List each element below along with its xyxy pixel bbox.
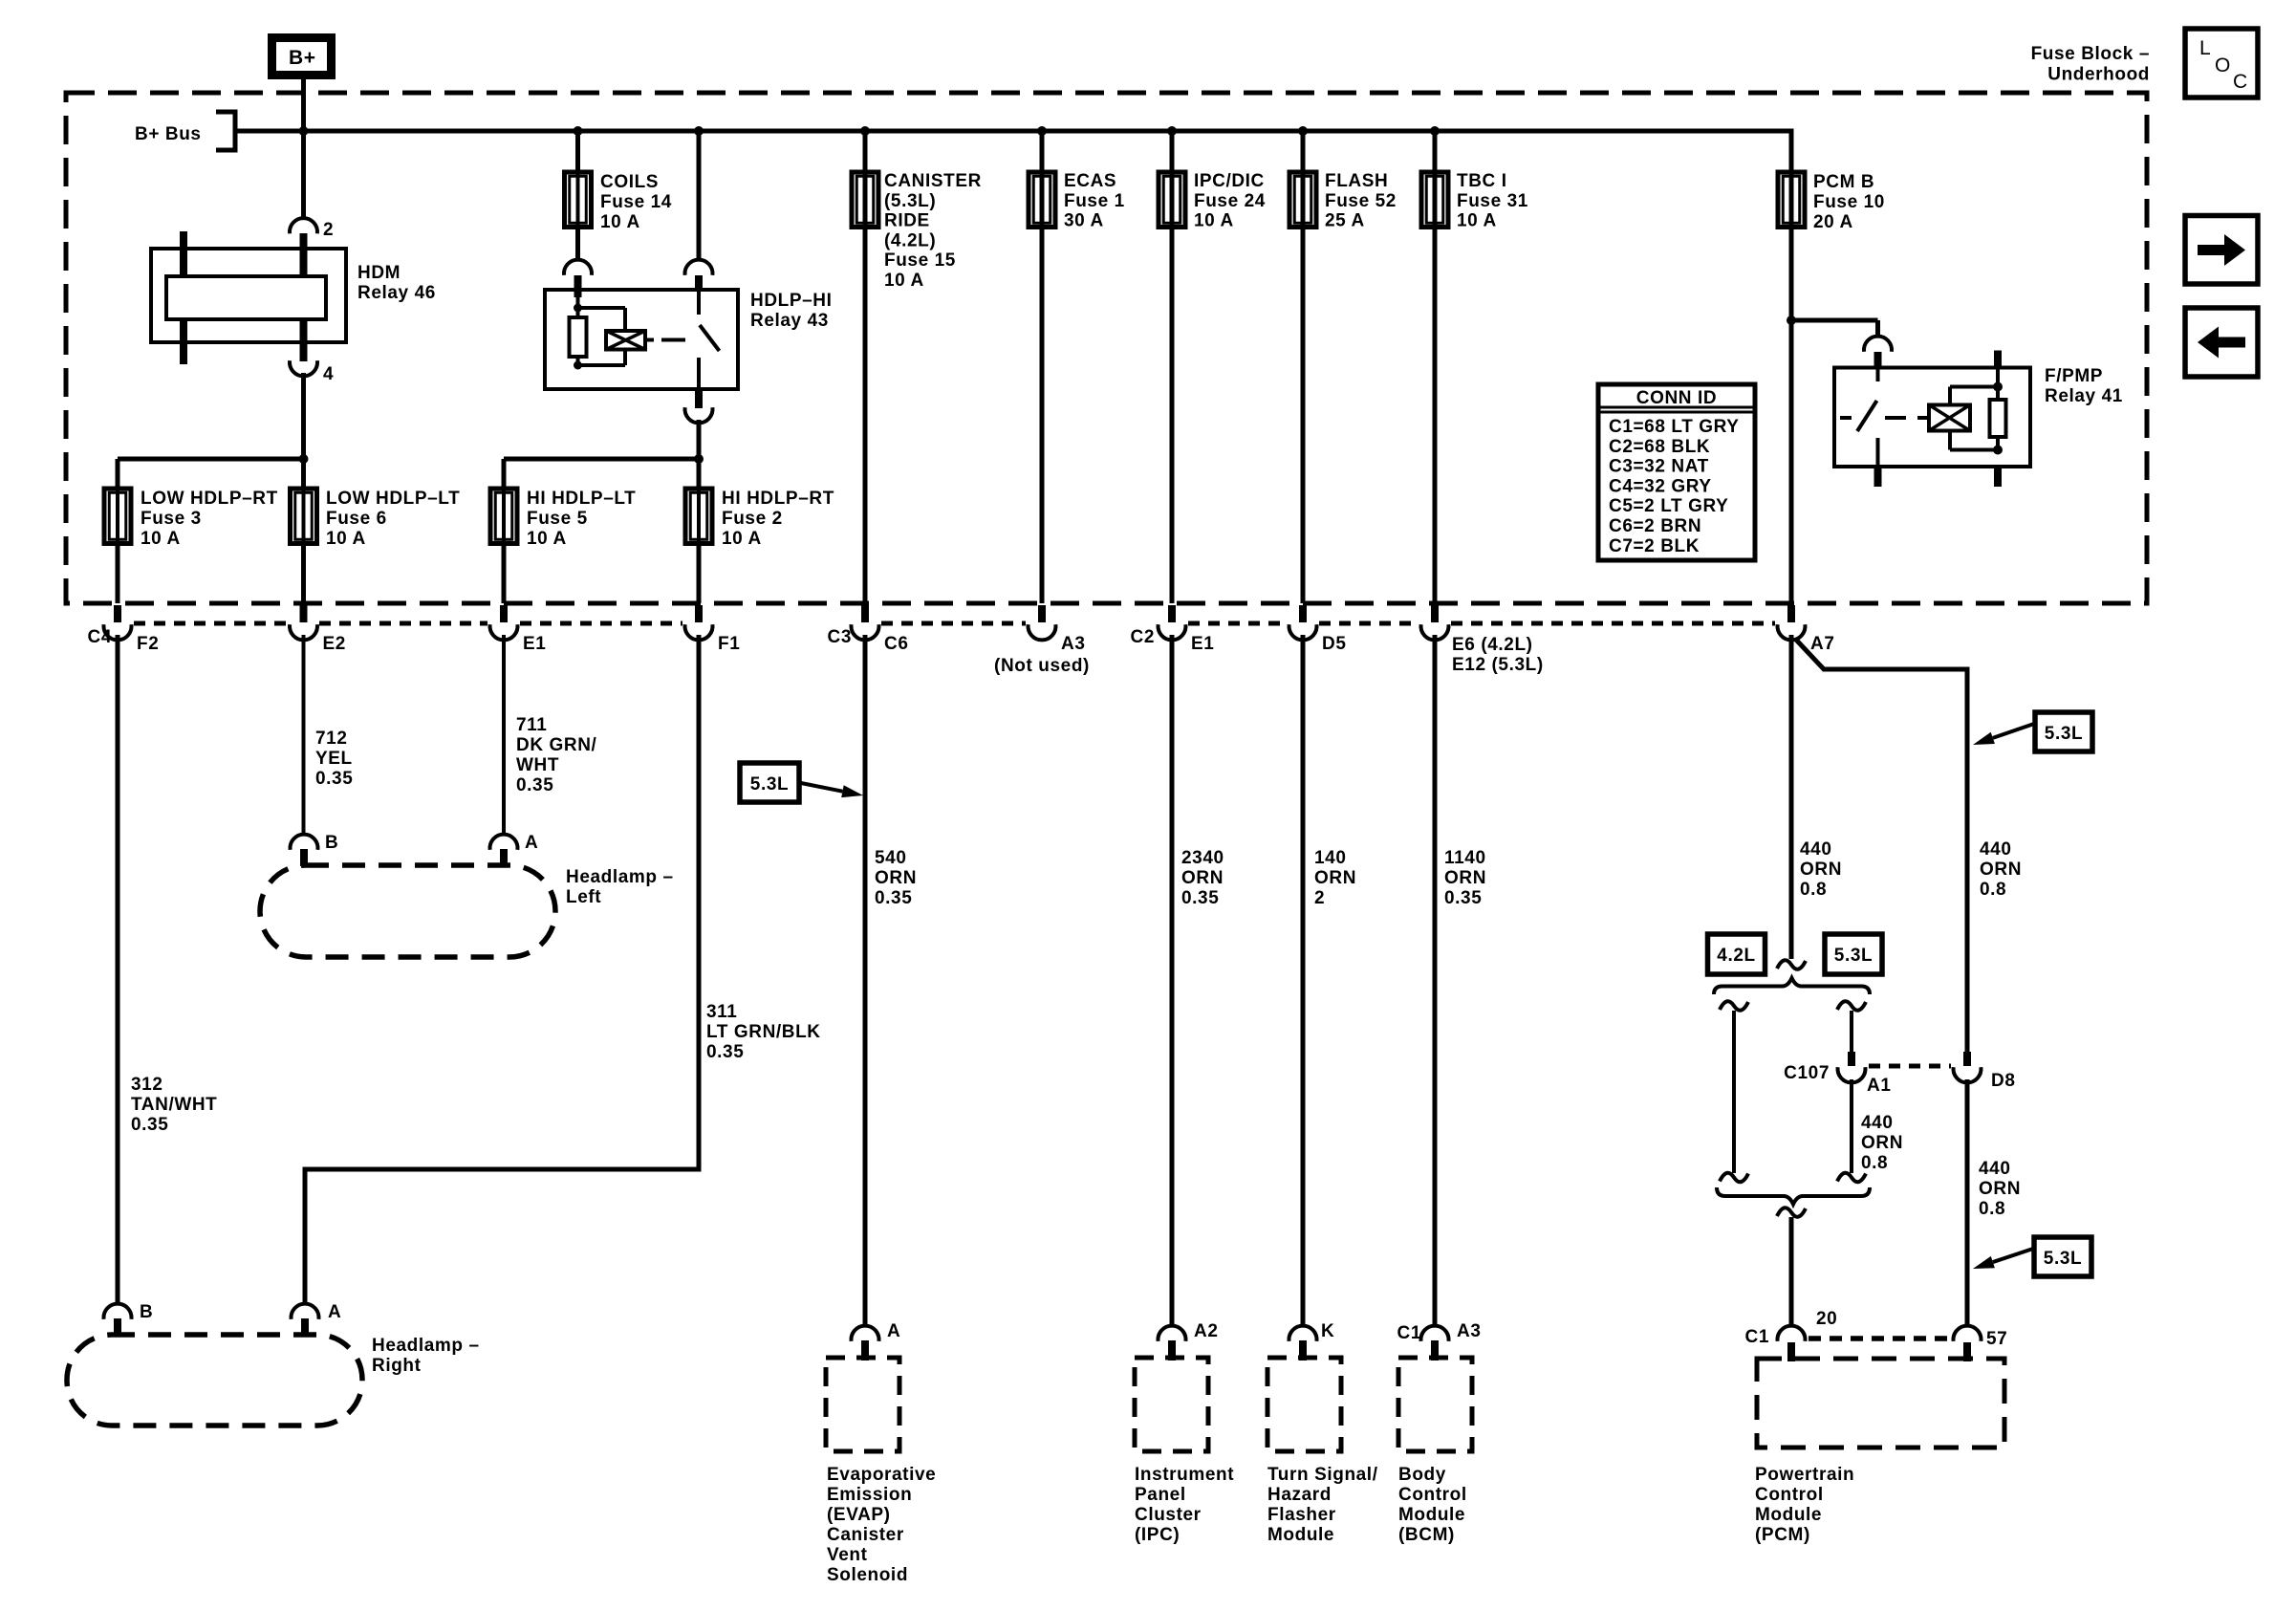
svg-text:HDM: HDM — [357, 263, 401, 283]
battery terminal B+ — [272, 38, 332, 76]
wire D8 to PCM pin 57 — [1965, 1079, 1970, 1326]
svg-text:C: C — [2233, 71, 2248, 93]
svg-text:B+ Bus: B+ Bus — [135, 124, 202, 144]
engine option box 5.3L split — [1825, 934, 1882, 974]
svg-text:Control: Control — [1755, 1485, 1824, 1505]
svg-text:C4: C4 — [88, 627, 113, 647]
wire bus to relay 43 switch pin — [697, 131, 702, 261]
dotted connector line F2-F1 — [134, 621, 288, 626]
svg-text:D8: D8 — [1991, 1071, 2016, 1091]
relay 43 actuator link — [645, 338, 654, 342]
wire F24 to connector row — [1170, 228, 1175, 604]
connector C3/C6 at fuse block — [861, 605, 869, 622]
node bus tap ipc — [1167, 126, 1177, 136]
svg-text:10 A: 10 A — [141, 529, 181, 549]
svg-text:440: 440 — [1979, 1159, 2011, 1179]
node low-hdlp feed junction — [299, 454, 309, 464]
svg-text:(4.2L): (4.2L) — [884, 230, 936, 250]
svg-text:A3: A3 — [1457, 1321, 1482, 1341]
svg-text:0.8: 0.8 — [1800, 880, 1827, 900]
svg-text:ECAS: ECAS — [1064, 171, 1116, 191]
fuse F14 COILS — [576, 172, 580, 228]
wire junction to relay 41 — [1791, 318, 1878, 323]
component Headlamp - Right — [67, 1335, 362, 1426]
connector E2 at fuse block — [300, 605, 308, 622]
svg-text:2: 2 — [323, 220, 334, 240]
svg-text:Right: Right — [372, 1356, 422, 1376]
wire 311 LT GRN/BLK circuit F1 to headlamp right A — [305, 635, 699, 1305]
connector C4/F2 at fuse block — [114, 605, 121, 622]
relay 41 lower pin stub — [1994, 467, 2002, 487]
node bus tap canister — [860, 126, 870, 136]
svg-text:Evaporative: Evaporative — [827, 1465, 936, 1485]
relay 43 coil circuit — [576, 297, 580, 317]
LOC legend box — [2185, 29, 2258, 98]
connector D5 at fuse block — [1299, 605, 1307, 622]
engine option box 4.2L — [1708, 934, 1765, 974]
svg-text:C7=2 BLK: C7=2 BLK — [1609, 536, 1700, 556]
component Instrument Panel Cluster box — [1135, 1358, 1208, 1451]
svg-text:IPC/DIC: IPC/DIC — [1194, 171, 1265, 191]
wire A7 branch to 5.3L pcm feed — [1795, 639, 1967, 1052]
svg-text:712: 712 — [315, 729, 348, 749]
svg-text:440: 440 — [1980, 839, 2012, 860]
svg-text:Module: Module — [1398, 1505, 1465, 1525]
connector flasher module pin K — [1289, 1326, 1317, 1341]
svg-text:C107: C107 — [1784, 1063, 1830, 1083]
node bus tap ecas — [1037, 126, 1047, 136]
svg-text:Body: Body — [1398, 1465, 1446, 1485]
svg-text:30 A: 30 A — [1064, 211, 1104, 231]
wire B+ to bus — [301, 79, 306, 131]
wire 140 ORN circuit D5 to flasher module — [1301, 635, 1306, 1326]
brace engine option split bottom — [1717, 1187, 1870, 1205]
svg-text:A1: A1 — [1867, 1076, 1892, 1096]
fuse F31 TBC I — [1433, 131, 1438, 228]
wire 711 DK GRN/WHT circuit E1 to headlamp left A — [502, 635, 506, 836]
connector F1 at fuse block — [695, 605, 703, 622]
wire 712 YEL circuit E2 to headlamp left B — [302, 635, 306, 836]
svg-text:F1: F1 — [718, 634, 740, 654]
dotted connector line pin20-pin57 — [1809, 1336, 1951, 1341]
svg-text:25 A: 25 A — [1325, 211, 1365, 231]
svg-text:Fuse 6: Fuse 6 — [326, 509, 387, 529]
svg-text:Fuse 5: Fuse 5 — [527, 509, 588, 529]
svg-text:LOW HDLP–LT: LOW HDLP–LT — [326, 489, 460, 509]
svg-text:C6=2 BRN: C6=2 BRN — [1609, 516, 1701, 536]
connector A7 wire to engine split — [1789, 635, 1794, 959]
connector IPC pin A2 — [1159, 1326, 1186, 1341]
dotted connector line E1-A7 — [1188, 621, 1287, 626]
connector relay 43 coil pin — [564, 260, 592, 275]
wire relay46 pin4 down — [301, 373, 306, 489]
wire 5.3L branch lower — [1850, 1079, 1853, 1173]
wire junction to fuse 5 column — [504, 457, 699, 462]
svg-text:LOW HDLP–RT: LOW HDLP–RT — [141, 489, 278, 509]
svg-text:1140: 1140 — [1444, 848, 1486, 868]
connector E6/E12 at fuse block — [1431, 605, 1439, 622]
svg-text:HDLP–HI: HDLP–HI — [750, 291, 833, 311]
svg-text:Fuse 14: Fuse 14 — [600, 192, 672, 212]
fuse Fuse6 LOW HDLP–LT — [302, 489, 306, 544]
node hi-hdlp feed junction — [694, 454, 704, 464]
svg-text:Left: Left — [566, 887, 601, 907]
svg-text:10 A: 10 A — [1457, 211, 1497, 231]
svg-text:Hazard: Hazard — [1267, 1485, 1332, 1505]
component Turn Signal Hazard Flasher Module box — [1267, 1358, 1341, 1451]
svg-text:Flasher: Flasher — [1267, 1505, 1336, 1525]
svg-text:Cluster: Cluster — [1135, 1505, 1202, 1525]
relay 41 output pin stub — [1874, 467, 1882, 487]
fuse block - underhood dashed border — [66, 93, 2147, 603]
svg-text:540: 540 — [875, 848, 907, 868]
svg-text:10 A: 10 A — [527, 529, 567, 549]
svg-text:4: 4 — [323, 364, 334, 384]
wire 2340 ORN circuit E1 to IPC — [1170, 635, 1175, 1326]
fuse F52 FLASH — [1301, 131, 1306, 228]
wire Fuse6 to connector row — [301, 544, 306, 604]
svg-text:5.3L: 5.3L — [1834, 946, 1873, 966]
node B+ bus junction — [299, 126, 309, 136]
svg-text:440: 440 — [1861, 1113, 1894, 1133]
connector relay 41 switch pin — [1864, 337, 1892, 352]
svg-text:2: 2 — [1314, 888, 1325, 908]
brace engine option split top — [1714, 978, 1870, 994]
svg-text:ORN: ORN — [1861, 1133, 1903, 1153]
svg-text:ORN: ORN — [1800, 860, 1842, 880]
relay 41 coil symbol — [1929, 405, 1970, 431]
svg-text:5.3L: 5.3L — [2044, 1249, 2082, 1269]
svg-text:Fuse 2: Fuse 2 — [722, 509, 783, 529]
connector pin 4 of relay 46 — [300, 319, 308, 361]
svg-text:D5: D5 — [1322, 634, 1347, 654]
svg-text:C1=68 LT GRY: C1=68 LT GRY — [1609, 417, 1740, 437]
svg-text:A7: A7 — [1810, 634, 1835, 654]
wire bus corner to fuse 10 — [1789, 129, 1794, 228]
node bus tap tbc — [1430, 126, 1440, 136]
wire Fuse5 to connector row — [502, 544, 507, 604]
fuse F24 IPC/DIC — [1170, 131, 1175, 228]
svg-text:(5.3L): (5.3L) — [884, 191, 936, 211]
relay 43 coil symbol — [606, 331, 645, 350]
svg-text:0.35: 0.35 — [131, 1115, 168, 1135]
svg-text:Instrument: Instrument — [1135, 1465, 1234, 1485]
svg-text:TAN/WHT: TAN/WHT — [131, 1095, 217, 1115]
svg-text:Canister: Canister — [827, 1525, 904, 1545]
svg-text:10 A: 10 A — [326, 529, 366, 549]
svg-text:(BCM): (BCM) — [1398, 1525, 1455, 1545]
svg-text:Headlamp –: Headlamp – — [566, 867, 674, 887]
svg-text:0.8: 0.8 — [1980, 880, 2006, 900]
connector PCM pin 57 — [1953, 1326, 1981, 1341]
connector relay 43 output pin — [695, 389, 703, 408]
fuse Fuse5 HI HDLP–LT — [502, 489, 506, 544]
wire bus to relay46 pin 2 — [301, 131, 306, 219]
svg-text:A2: A2 — [1194, 1321, 1219, 1341]
svg-text:ORN: ORN — [875, 868, 917, 888]
engine option box 5.3L right lower — [2034, 1237, 2091, 1276]
fuse F10 PCM B — [1778, 172, 1805, 228]
svg-text:FLASH: FLASH — [1325, 171, 1388, 191]
relay 41 coil circuit — [1948, 387, 1952, 405]
wire 1140 ORN circuit E6/E12 to BCM — [1433, 635, 1438, 1326]
svg-text:C1: C1 — [1745, 1327, 1770, 1347]
svg-text:C2: C2 — [1131, 627, 1156, 647]
svg-text:5.3L: 5.3L — [2045, 724, 2083, 744]
svg-text:0.8: 0.8 — [1861, 1153, 1888, 1173]
fuse Fuse2 HI HDLP–RT — [697, 489, 701, 544]
svg-text:O: O — [2215, 54, 2231, 76]
connector D8 — [1963, 1052, 1971, 1066]
svg-text:WHT: WHT — [516, 755, 559, 775]
wire F15 to connector row — [863, 228, 868, 604]
relay U46 HDM box — [151, 249, 346, 342]
wire Fuse3 to connector row — [116, 544, 120, 604]
svg-text:0.35: 0.35 — [875, 888, 912, 908]
svg-text:Underhood: Underhood — [2047, 65, 2150, 85]
svg-text:Powertrain: Powertrain — [1755, 1465, 1854, 1485]
wire break below split — [1777, 1208, 1806, 1217]
svg-text:A3: A3 — [1061, 634, 1086, 654]
connector headlamp right pin B — [103, 1304, 131, 1319]
wire split to PCM C1 pin 20 — [1789, 1217, 1794, 1326]
svg-text:ORN: ORN — [1314, 868, 1356, 888]
wire F52 to connector row — [1301, 228, 1306, 604]
svg-text:C1: C1 — [1397, 1323, 1422, 1343]
component Headlamp - Left — [260, 865, 555, 957]
engine option arrow to wire 440 — [1993, 724, 2034, 738]
svg-text:5.3L: 5.3L — [750, 774, 789, 795]
engine option arrow 5.3L to wire 540 — [801, 783, 842, 792]
svg-text:10 A: 10 A — [1194, 211, 1234, 231]
svg-text:HI HDLP–LT: HI HDLP–LT — [527, 489, 636, 509]
svg-text:Relay 41: Relay 41 — [2045, 386, 2123, 406]
svg-text:10 A: 10 A — [722, 529, 762, 549]
wire 540 ORN circuit C6 to EVAP solenoid — [863, 635, 868, 1326]
svg-text:(PCM): (PCM) — [1755, 1525, 1810, 1545]
svg-text:Solenoid: Solenoid — [827, 1565, 908, 1585]
svg-text:711: 711 — [516, 715, 547, 735]
svg-text:C2=68 BLK: C2=68 BLK — [1609, 437, 1710, 457]
svg-text:ORN: ORN — [1444, 868, 1486, 888]
svg-text:E1: E1 — [1191, 634, 1214, 654]
svg-text:Fuse 10: Fuse 10 — [1813, 192, 1885, 212]
node bus tap coils — [574, 126, 583, 136]
wire F31 to connector row — [1433, 228, 1438, 604]
dotted connector line C6-A3 — [881, 621, 1026, 626]
svg-text:L: L — [2199, 37, 2211, 59]
relay U43 HDLP-HI box — [545, 290, 738, 389]
svg-text:(Not used): (Not used) — [994, 656, 1090, 676]
connector BCM pin A3 connector C1 — [1421, 1326, 1449, 1341]
svg-text:57: 57 — [1986, 1329, 2007, 1349]
svg-text:0.35: 0.35 — [1444, 888, 1482, 908]
svg-text:Fuse 24: Fuse 24 — [1194, 191, 1266, 211]
engine option box 5.3L left — [740, 763, 799, 802]
svg-text:K: K — [1321, 1321, 1334, 1341]
svg-text:Fuse 31: Fuse 31 — [1457, 191, 1528, 211]
wire B+ bus bar — [235, 129, 1794, 134]
svg-text:A: A — [525, 833, 538, 853]
svg-text:10 A: 10 A — [884, 271, 924, 291]
svg-text:(EVAP): (EVAP) — [827, 1505, 891, 1525]
svg-text:C6: C6 — [884, 634, 909, 654]
engine option arrow to wire 57 — [1993, 1249, 2033, 1262]
svg-text:PCM B: PCM B — [1813, 172, 1874, 192]
node bus tap flash — [1298, 126, 1308, 136]
svg-text:2340: 2340 — [1181, 848, 1224, 868]
connector headlamp right pin A — [291, 1304, 318, 1319]
svg-text:440: 440 — [1800, 839, 1832, 860]
svg-text:E2: E2 — [323, 634, 346, 654]
wire fuse 14 to relay 43 coil pin — [575, 228, 580, 261]
fuse Fuse3 LOW HDLP–RT — [116, 489, 119, 544]
svg-text:E12 (5.3L): E12 (5.3L) — [1452, 655, 1544, 675]
connector pin 2 of relay 46 — [290, 218, 317, 233]
connector headlamp left pin B — [291, 835, 318, 850]
svg-text:E6 (4.2L): E6 (4.2L) — [1452, 635, 1533, 655]
svg-text:Fuse 3: Fuse 3 — [141, 509, 202, 529]
svg-text:F2: F2 — [137, 634, 159, 654]
svg-text:Emission: Emission — [827, 1485, 912, 1505]
svg-text:F/PMP: F/PMP — [2045, 366, 2103, 386]
svg-text:C5=2 LT GRY: C5=2 LT GRY — [1609, 496, 1728, 516]
svg-text:ORN: ORN — [1980, 860, 2022, 880]
svg-text:0.35: 0.35 — [706, 1042, 744, 1062]
svg-text:LT GRN/BLK: LT GRN/BLK — [706, 1022, 821, 1042]
svg-text:Relay 46: Relay 46 — [357, 283, 436, 303]
svg-text:0.8: 0.8 — [1979, 1199, 2005, 1219]
svg-text:C3: C3 — [828, 627, 853, 647]
svg-text:CONN ID: CONN ID — [1636, 388, 1717, 408]
svg-text:0.35: 0.35 — [315, 769, 353, 789]
arrow box left — [2185, 308, 2258, 377]
svg-text:311: 311 — [706, 1002, 737, 1022]
connector EVAP solenoid pin A — [852, 1326, 879, 1341]
svg-text:Fuse 52: Fuse 52 — [1325, 191, 1397, 211]
svg-text:A: A — [328, 1302, 341, 1322]
svg-text:4.2L: 4.2L — [1717, 946, 1755, 966]
connector E1 at fuse block — [500, 605, 508, 622]
wire junction to fuse 3 column — [118, 457, 304, 462]
fuse F1 ECAS — [1040, 131, 1045, 228]
arrow box right — [2185, 216, 2258, 285]
node bus tap hdlp-hi — [694, 126, 704, 136]
connector PCM C1 pin 20 — [1777, 1326, 1805, 1341]
svg-text:Turn Signal/: Turn Signal/ — [1267, 1465, 1378, 1485]
svg-text:Control: Control — [1398, 1485, 1467, 1505]
relay 41 switch — [1876, 368, 1880, 382]
svg-text:(IPC): (IPC) — [1135, 1525, 1180, 1545]
connector headlamp left pin A — [490, 835, 518, 850]
wire break at engine split — [1777, 960, 1806, 969]
svg-text:E1: E1 — [523, 634, 546, 654]
svg-text:TBC I: TBC I — [1457, 171, 1507, 191]
svg-text:Fuse 1: Fuse 1 — [1064, 191, 1125, 211]
connector relay 43 switch pin — [685, 260, 713, 275]
svg-text:20 A: 20 A — [1813, 212, 1853, 232]
svg-text:0.35: 0.35 — [516, 775, 553, 795]
svg-text:CANISTER: CANISTER — [884, 171, 982, 191]
svg-text:Fuse 15: Fuse 15 — [884, 250, 956, 271]
relay U41 F/PMP box — [1834, 368, 2030, 468]
svg-text:B: B — [140, 1302, 153, 1322]
svg-text:Module: Module — [1755, 1505, 1822, 1525]
svg-text:140: 140 — [1314, 848, 1347, 868]
connector C107 pin A1 — [1848, 1052, 1855, 1066]
svg-text:HI HDLP–RT: HI HDLP–RT — [722, 489, 834, 509]
svg-text:Panel: Panel — [1135, 1485, 1186, 1505]
svg-text:C4=32 GRY: C4=32 GRY — [1609, 476, 1712, 496]
dotted connector line C107 A1-D8 — [1869, 1064, 1951, 1069]
svg-text:B: B — [325, 833, 338, 853]
component Body Control Module box — [1398, 1358, 1472, 1451]
component EVAP canister vent solenoid box — [826, 1358, 899, 1451]
wire 4.2L branch — [1720, 1001, 1748, 1011]
wire F1 to connector row — [1040, 228, 1045, 604]
fuse F15 CANISTER — [863, 131, 868, 228]
connector A3 at fuse block — [1038, 605, 1046, 622]
wire relay43 output down — [697, 420, 702, 489]
CONN ID legend table — [1598, 384, 1755, 560]
svg-text:DK GRN/: DK GRN/ — [516, 735, 597, 755]
svg-text:ORN: ORN — [1181, 868, 1224, 888]
wire 312 TAN/WHT circuit F2 to headlamp right B — [116, 635, 120, 1305]
engine option box 5.3L right upper — [2035, 712, 2092, 751]
svg-text:Module: Module — [1267, 1525, 1334, 1545]
svg-text:10 A: 10 A — [600, 212, 640, 232]
svg-text:Vent: Vent — [827, 1545, 868, 1565]
svg-text:RIDE: RIDE — [884, 211, 930, 231]
relay 43 switch — [697, 290, 701, 315]
svg-text:ORN: ORN — [1979, 1179, 2021, 1199]
B+ Bus bracket terminal — [216, 112, 235, 150]
svg-text:B+: B+ — [289, 47, 316, 69]
svg-text:YEL: YEL — [315, 749, 353, 769]
svg-text:0.35: 0.35 — [1181, 888, 1219, 908]
wire bus to fuse 14 — [575, 131, 580, 172]
node relay 41 branch junction — [1787, 316, 1796, 325]
wire Fuse2 to connector row — [697, 544, 702, 604]
svg-text:COILS: COILS — [600, 172, 659, 192]
relay 46 left pin stubs — [180, 231, 187, 276]
svg-text:Relay 43: Relay 43 — [750, 311, 829, 331]
svg-text:Headlamp –: Headlamp – — [372, 1336, 480, 1356]
relay 41 actuator link — [1840, 416, 1852, 420]
wire fuse 10 down to A7 — [1789, 228, 1794, 604]
connector A7 at fuse block — [1787, 605, 1795, 622]
svg-text:Fuse Block –: Fuse Block – — [2031, 44, 2150, 64]
connector C2/E1 at fuse block — [1168, 605, 1176, 622]
svg-text:312: 312 — [131, 1075, 163, 1095]
wire 5.3L branch upper — [1837, 1001, 1866, 1011]
svg-text:A: A — [887, 1321, 900, 1341]
svg-text:C3=32 NAT: C3=32 NAT — [1609, 457, 1709, 477]
relay 41 supply pin stub — [1994, 351, 2002, 368]
svg-text:20: 20 — [1816, 1309, 1837, 1329]
component Powertrain Control Module box — [1757, 1359, 2004, 1448]
